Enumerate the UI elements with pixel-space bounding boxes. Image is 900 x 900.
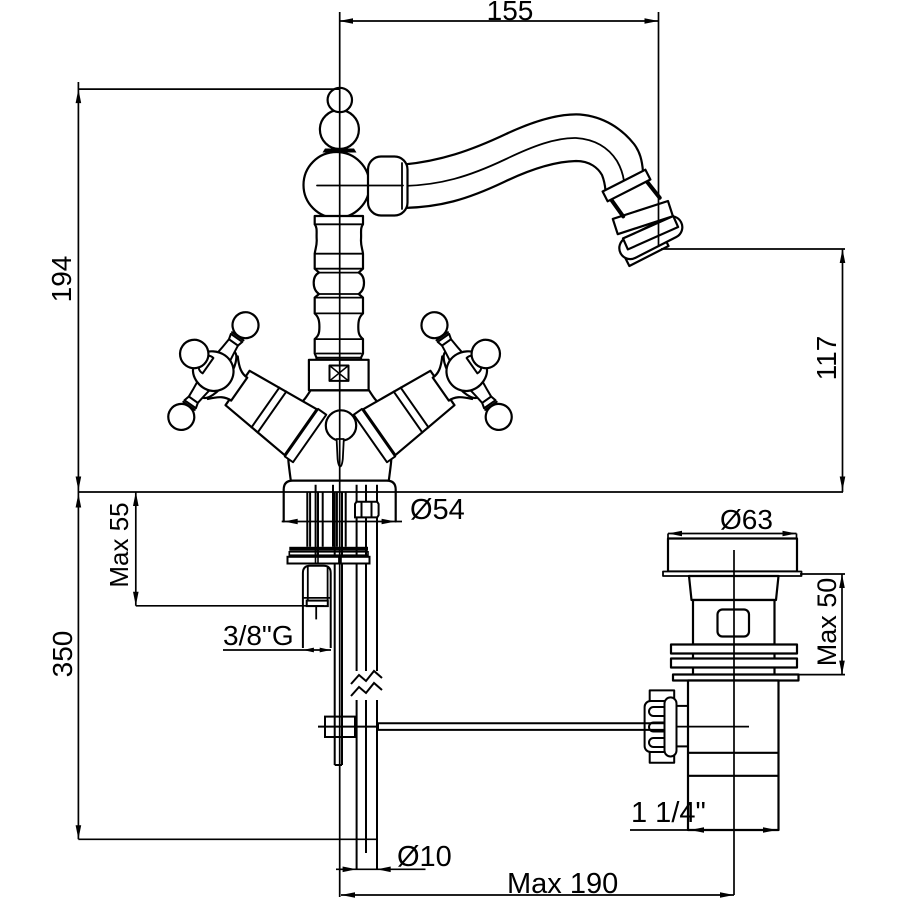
svg-text:Max 190: Max 190 xyxy=(507,868,618,900)
svg-text:155: 155 xyxy=(487,0,534,26)
svg-text:3/8"G: 3/8"G xyxy=(223,620,294,651)
svg-text:Max 55: Max 55 xyxy=(104,502,134,587)
svg-text:Ø63: Ø63 xyxy=(720,504,773,535)
svg-text:1 1/4": 1 1/4" xyxy=(631,797,706,829)
svg-text:Max 50: Max 50 xyxy=(812,578,842,667)
svg-text:Ø54: Ø54 xyxy=(410,494,465,526)
svg-text:117: 117 xyxy=(811,336,842,381)
svg-text:194: 194 xyxy=(46,256,77,303)
svg-text:Ø10: Ø10 xyxy=(397,841,452,873)
svg-text:350: 350 xyxy=(47,631,78,678)
